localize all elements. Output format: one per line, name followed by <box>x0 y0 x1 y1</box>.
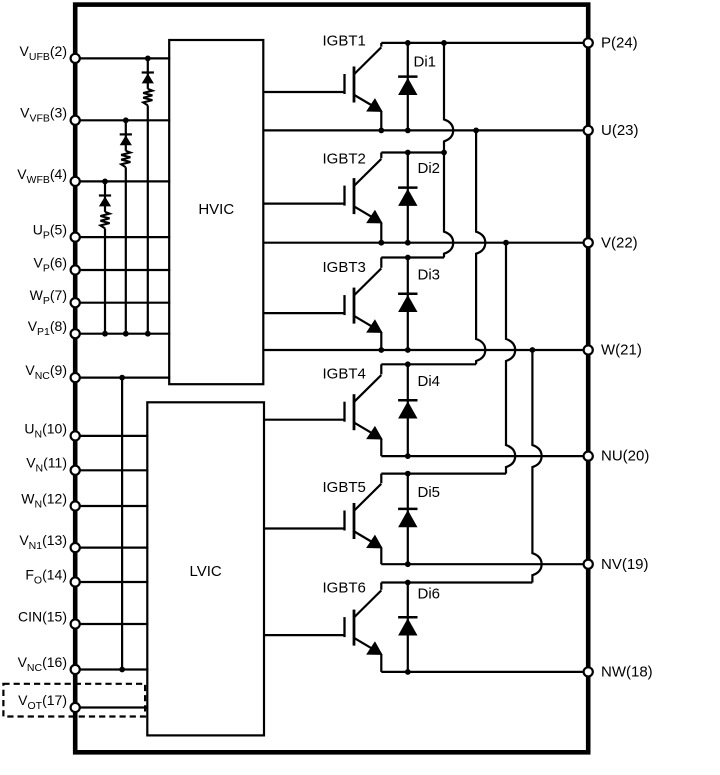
svg-text:Di2: Di2 <box>418 160 441 177</box>
wire pin 9 to HVIC <box>75 377 170 379</box>
junction Di2 anode <box>405 240 411 246</box>
transistor IGBT5 <box>264 474 382 565</box>
wire pin 12 to LVIC <box>75 505 148 507</box>
wire V rail <box>263 242 588 244</box>
bootstrap resistor RB1 <box>143 89 152 334</box>
svg-text:Di5: Di5 <box>418 484 441 501</box>
wire pin 17 to LVIC <box>75 706 148 708</box>
pin 15 label <box>18 608 67 624</box>
wire bus W to IGBT6 collector <box>532 350 541 583</box>
wire pin 13 to LVIC <box>75 546 148 548</box>
svg-text:LVIC: LVIC <box>190 563 222 580</box>
svg-text:IGBT4: IGBT4 <box>323 366 366 383</box>
pin 9 label <box>25 362 67 382</box>
svg-text:Di3: Di3 <box>418 267 441 284</box>
pin NV(19) label <box>601 556 649 573</box>
VOT optional-pin dashed box <box>3 684 145 717</box>
wire pin 4 to HVIC <box>75 180 170 182</box>
wire pin 7 to HVIC <box>75 302 170 304</box>
junction Di5 cathode <box>405 471 411 477</box>
junction Di2 cathode <box>405 150 411 156</box>
pin 2 terminal circle <box>71 54 80 63</box>
pin W(21) label <box>601 342 642 359</box>
junction bus A on P rail <box>441 40 447 46</box>
pin 8 terminal circle <box>71 329 80 338</box>
bootstrap diode DB3 <box>99 181 111 212</box>
svg-text:NU(20): NU(20) <box>601 448 649 465</box>
junction Di5 anode <box>405 561 411 567</box>
pin 16 terminal circle <box>71 665 80 674</box>
junction IGBT3 emitter on rail <box>378 347 384 353</box>
wire NW rail <box>381 671 588 673</box>
wire bus V to IGBT5 collector <box>506 243 515 474</box>
label IGBT5 <box>323 479 366 496</box>
pin 11 terminal circle <box>71 466 80 475</box>
pin 3 label <box>20 105 67 125</box>
junction Di3 cathode <box>405 255 411 261</box>
pin 9 terminal circle <box>71 373 80 382</box>
label Di2 <box>418 160 441 177</box>
wire IGBT3 collector rail <box>381 256 444 258</box>
label IGBT1 <box>323 33 366 50</box>
pin NV(19) terminal circle <box>584 560 593 569</box>
junction Di6 anode <box>405 669 411 675</box>
junction DB2 top <box>123 117 129 123</box>
wire pin 2 to HVIC <box>75 57 170 59</box>
transistor IGBT1 <box>264 43 382 130</box>
wire IGBT4 collector rail <box>381 363 476 365</box>
wire pin 5 to HVIC <box>75 236 170 238</box>
LVIC U2 <box>147 402 264 735</box>
pin 15 terminal circle <box>71 619 80 628</box>
svg-text:IGBT6: IGBT6 <box>323 580 366 597</box>
svg-text:P(24): P(24) <box>601 35 638 52</box>
pin P(24) terminal circle <box>584 38 593 47</box>
svg-text:Di4: Di4 <box>418 373 441 390</box>
pin V(22) label <box>601 234 638 251</box>
svg-text:Di6: Di6 <box>418 586 441 603</box>
svg-text:W(21): W(21) <box>601 342 642 359</box>
junction RB3 bottom on VP1 <box>102 331 108 337</box>
label IGBT3 <box>323 259 366 276</box>
wire VNC bus vertical <box>121 378 123 670</box>
pin W(21) terminal circle <box>584 345 593 354</box>
pin 17 label <box>18 692 67 712</box>
wire IGBT2 collector rail <box>381 151 444 153</box>
transistor IGBT4 <box>264 364 382 456</box>
diode Di2 <box>398 153 417 243</box>
pin 4 label <box>17 166 67 186</box>
label Di5 <box>418 484 441 501</box>
junction IGBT2 emitter on rail <box>378 240 384 246</box>
junction RB2 bottom on VP1 <box>123 331 129 337</box>
svg-text:U(23): U(23) <box>601 122 639 139</box>
pin 11 label <box>26 455 67 475</box>
diode Di5 <box>398 474 417 565</box>
pin 17 terminal circle <box>71 703 80 712</box>
pin 14 terminal circle <box>71 577 80 586</box>
svg-text:NW(18): NW(18) <box>601 664 653 681</box>
junction bus B on U rail <box>473 127 479 133</box>
label Di3 <box>418 267 441 284</box>
pin 8 label <box>28 318 67 338</box>
junction Di6 cathode <box>405 580 411 586</box>
pin U(23) terminal circle <box>584 126 593 135</box>
bootstrap diode DB1 <box>142 58 154 89</box>
pin 2 label <box>20 43 67 63</box>
pin 10 terminal circle <box>71 431 80 440</box>
pin 6 label <box>34 254 67 274</box>
pin 13 terminal circle <box>71 543 80 552</box>
junction DB1 top <box>145 56 151 62</box>
svg-text:CIN(15): CIN(15) <box>18 608 67 624</box>
bootstrap diode DB2 <box>120 120 132 151</box>
label IGBT4 <box>323 366 366 383</box>
junction DB3 top <box>102 179 108 185</box>
label Di6 <box>418 586 441 603</box>
junction bus D on W rail <box>530 347 536 353</box>
pin U(23) label <box>601 122 639 139</box>
junction Di1 cathode <box>405 40 411 46</box>
wire bus P to IGBT2/IGBT3 collectors <box>444 43 453 258</box>
pin 13 label <box>19 532 67 552</box>
module outline border <box>75 5 588 753</box>
junction bus C on V rail <box>503 240 509 246</box>
wire W rail <box>263 349 588 351</box>
junction Di4 cathode <box>405 361 411 367</box>
pin P(24) label <box>601 35 638 52</box>
junction Di4 anode <box>405 453 411 459</box>
pin NU(20) terminal circle <box>584 452 593 461</box>
junction IGBT1 emitter on rail <box>378 127 384 133</box>
transistor IGBT3 <box>264 258 382 351</box>
wire P rail <box>381 42 588 44</box>
label Di1 <box>414 54 437 71</box>
pin V(22) terminal circle <box>584 238 593 247</box>
pin 7 label <box>30 287 67 307</box>
diode Di1 <box>398 43 417 130</box>
transistor IGBT6 <box>264 583 382 672</box>
pin NW(18) terminal circle <box>584 667 593 676</box>
wire bus U to IGBT4 collector <box>476 130 485 364</box>
wire NV rail <box>381 563 588 565</box>
junction VNC bus at pin 16 <box>119 667 125 673</box>
pin 7 terminal circle <box>71 298 80 307</box>
pin 14 label <box>25 566 67 586</box>
junction bus A on IGBT2 collector rail <box>441 150 447 156</box>
diode Di3 <box>398 258 417 351</box>
pin NW(18) label <box>601 664 653 681</box>
svg-text:IGBT2: IGBT2 <box>323 151 366 168</box>
wire pin 11 to LVIC <box>75 469 148 471</box>
wire pin 6 to HVIC <box>75 269 170 271</box>
pin 16 label <box>18 654 67 674</box>
svg-text:NV(19): NV(19) <box>601 556 649 573</box>
wire pin 3 to HVIC <box>75 119 170 121</box>
wire IGBT5 collector rail <box>381 473 506 475</box>
label IGBT2 <box>323 151 366 168</box>
junction Di1 anode <box>405 127 411 133</box>
wire U rail <box>263 129 588 131</box>
svg-text:V(22): V(22) <box>601 234 638 251</box>
pin 3 terminal circle <box>71 116 80 125</box>
svg-text:IGBT1: IGBT1 <box>323 33 366 50</box>
pin 5 terminal circle <box>71 233 80 242</box>
pin 10 label <box>24 420 67 440</box>
junction VNC bus at pin 9 <box>119 375 125 381</box>
svg-text:Di1: Di1 <box>414 54 437 71</box>
label Di4 <box>418 373 441 390</box>
HVIC U1 <box>169 40 263 384</box>
svg-text:IGBT3: IGBT3 <box>323 259 366 276</box>
wire IGBT6 collector rail <box>381 581 532 583</box>
junction RB1 bottom on VP1 <box>145 331 151 337</box>
pin NU(20) label <box>601 448 649 465</box>
pin 6 terminal circle <box>71 265 80 274</box>
wire pin 10 to LVIC <box>75 435 148 437</box>
diode Di6 <box>398 583 417 672</box>
pin 5 label <box>33 222 67 242</box>
wire pin 8 to HVIC <box>75 333 170 335</box>
pin 12 terminal circle <box>71 501 80 510</box>
svg-text:IGBT5: IGBT5 <box>323 479 366 496</box>
bootstrap resistor RB2 <box>121 151 130 334</box>
junction Di3 anode <box>405 347 411 353</box>
svg-text:HVIC: HVIC <box>198 201 234 218</box>
diode Di4 <box>398 364 417 456</box>
wire pin 15 to LVIC <box>75 623 148 625</box>
bootstrap resistor RB3 <box>100 212 109 334</box>
pin 12 label <box>21 490 67 510</box>
transistor IGBT2 <box>264 153 382 243</box>
wire pin 14 to LVIC <box>75 581 148 583</box>
wire NU rail <box>381 455 588 457</box>
label IGBT6 <box>323 580 366 597</box>
wire pin 16 to LVIC <box>75 668 148 670</box>
pin 4 terminal circle <box>71 177 80 186</box>
